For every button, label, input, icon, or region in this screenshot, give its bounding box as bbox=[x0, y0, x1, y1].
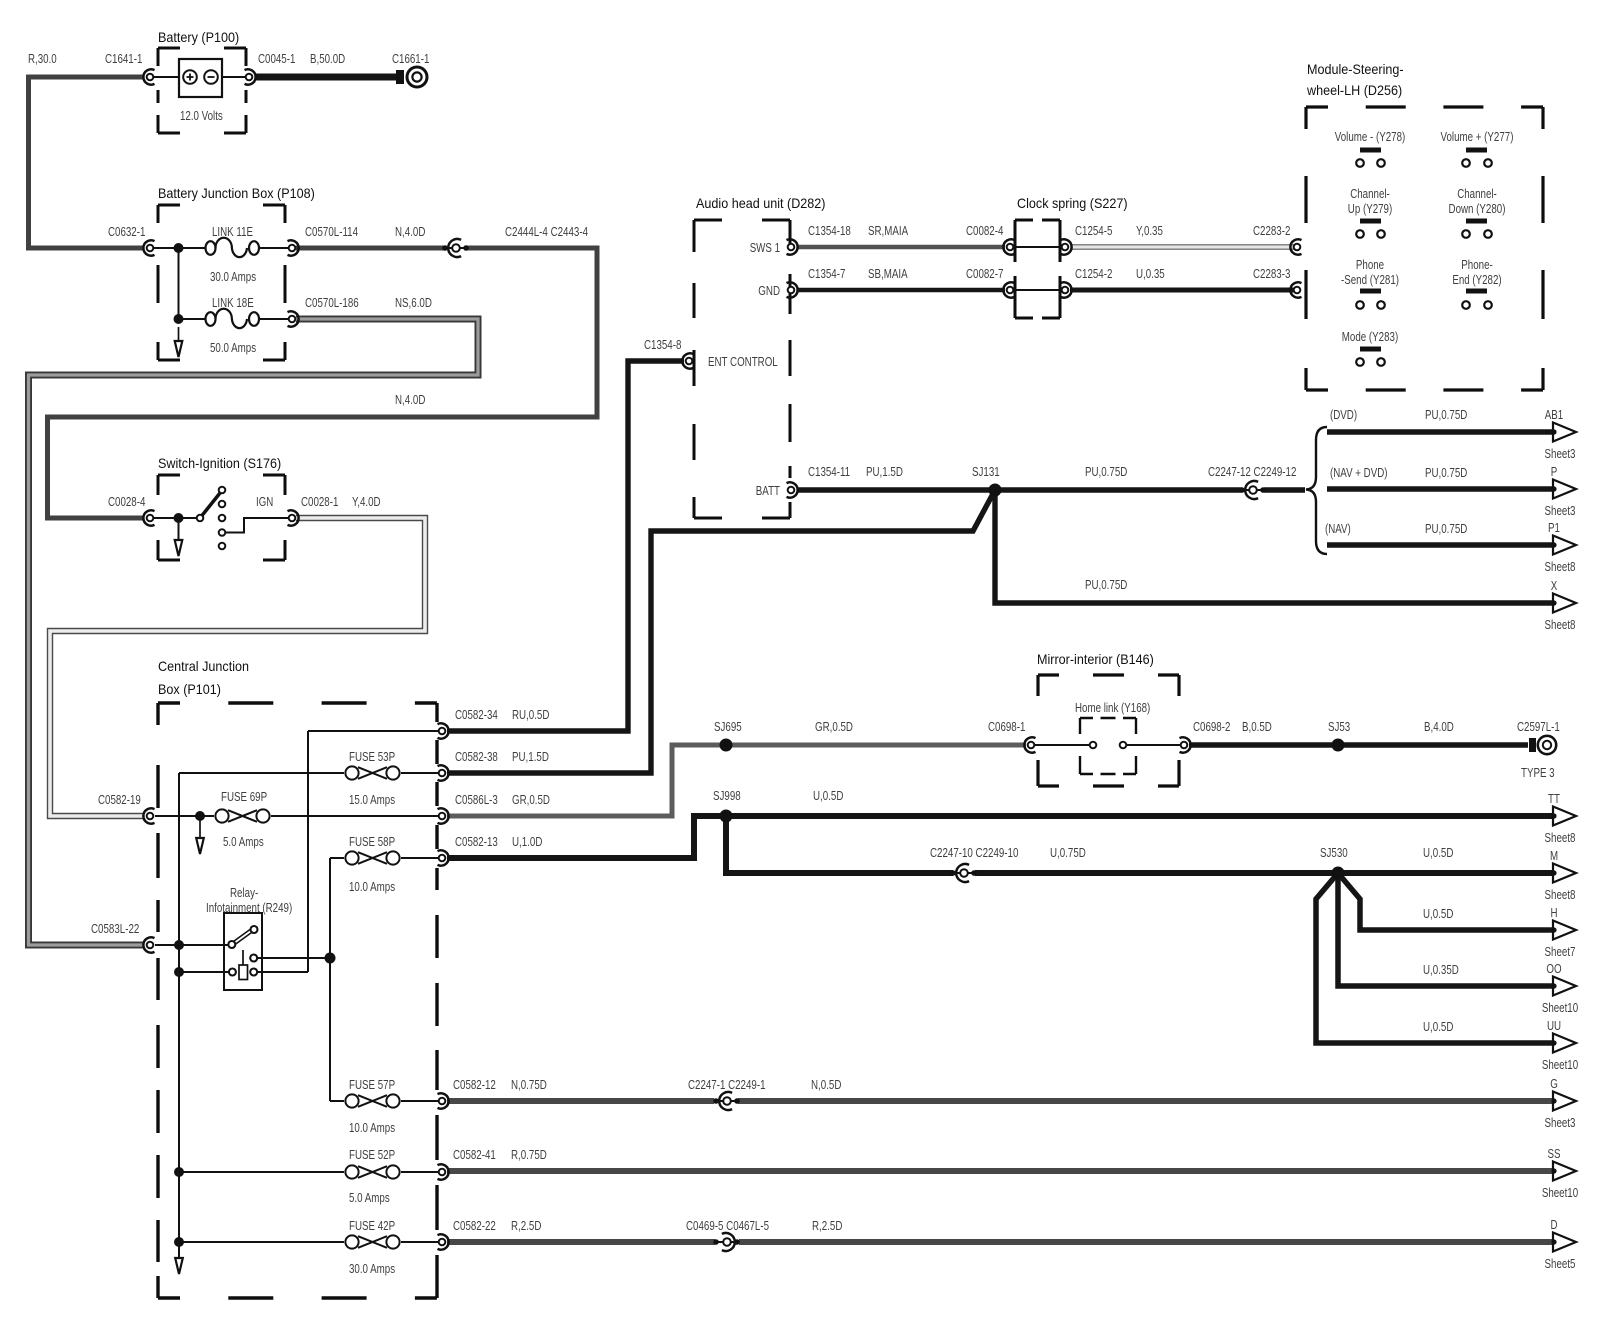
svg-text:Module-Steering-: Module-Steering- bbox=[1307, 61, 1404, 77]
svg-text:U,0.5D: U,0.5D bbox=[813, 788, 843, 803]
svg-text:Volume + (Y277): Volume + (Y277) bbox=[1441, 129, 1514, 144]
svg-text:Box (P101): Box (P101) bbox=[158, 681, 221, 697]
svg-text:IGN: IGN bbox=[256, 494, 273, 509]
svg-text:30.0 Amps: 30.0 Amps bbox=[349, 1261, 395, 1276]
svg-text:15.0 Amps: 15.0 Amps bbox=[349, 792, 395, 807]
svg-text:C0632-1: C0632-1 bbox=[108, 224, 145, 239]
svg-text:C1354-18: C1354-18 bbox=[808, 223, 851, 238]
svg-text:Volume - (Y278): Volume - (Y278) bbox=[1335, 129, 1406, 144]
svg-text:C1354-8: C1354-8 bbox=[644, 337, 681, 352]
svg-text:Relay-: Relay- bbox=[230, 885, 258, 900]
svg-text:Switch-Ignition (S176): Switch-Ignition (S176) bbox=[158, 455, 281, 471]
svg-text:N,0.5D: N,0.5D bbox=[811, 1077, 841, 1092]
svg-text:Channel-: Channel- bbox=[1350, 186, 1390, 201]
svg-text:C0028-4: C0028-4 bbox=[108, 494, 145, 509]
svg-text:C0698-2: C0698-2 bbox=[1193, 719, 1230, 734]
svg-text:C0582-34: C0582-34 bbox=[455, 707, 498, 722]
svg-text:RU,0.5D: RU,0.5D bbox=[512, 707, 549, 722]
svg-text:Y,0.35: Y,0.35 bbox=[1136, 223, 1163, 238]
svg-text:U,0.5D: U,0.5D bbox=[1423, 1019, 1453, 1034]
svg-text:R,2.5D: R,2.5D bbox=[511, 1218, 541, 1233]
svg-text:Infotainment (R249): Infotainment (R249) bbox=[206, 900, 292, 915]
svg-text:C0582-38: C0582-38 bbox=[455, 749, 498, 764]
svg-text:TYPE 3: TYPE 3 bbox=[1521, 765, 1555, 780]
svg-text:C2444L-4 C2443-4: C2444L-4 C2443-4 bbox=[505, 224, 588, 239]
svg-text:B,4.0D: B,4.0D bbox=[1424, 719, 1454, 734]
svg-text:Sheet8: Sheet8 bbox=[1545, 830, 1576, 845]
svg-text:10.0 Amps: 10.0 Amps bbox=[349, 879, 395, 894]
svg-text:PU,1.5D: PU,1.5D bbox=[512, 749, 549, 764]
svg-text:R,2.5D: R,2.5D bbox=[812, 1218, 842, 1233]
svg-text:Sheet8: Sheet8 bbox=[1545, 559, 1576, 574]
svg-text:Channel-: Channel- bbox=[1457, 186, 1497, 201]
svg-text:12.0 Volts: 12.0 Volts bbox=[180, 108, 223, 123]
svg-text:FUSE 69P: FUSE 69P bbox=[221, 789, 267, 804]
svg-text:10.0 Amps: 10.0 Amps bbox=[349, 1120, 395, 1135]
svg-text:PU,0.75D: PU,0.75D bbox=[1085, 577, 1127, 592]
svg-text:R,0.75D: R,0.75D bbox=[511, 1147, 547, 1162]
svg-text:Sheet5: Sheet5 bbox=[1545, 1256, 1576, 1271]
svg-text:C0586L-3: C0586L-3 bbox=[455, 792, 498, 807]
svg-text:H: H bbox=[1551, 905, 1558, 920]
svg-text:G: G bbox=[1550, 1076, 1558, 1091]
svg-text:Home link (Y168): Home link (Y168) bbox=[1075, 700, 1150, 715]
svg-text:C0582-13: C0582-13 bbox=[455, 834, 498, 849]
svg-text:PU,0.75D: PU,0.75D bbox=[1425, 407, 1467, 422]
svg-text:C0698-1: C0698-1 bbox=[988, 719, 1025, 734]
svg-text:D: D bbox=[1551, 1217, 1558, 1232]
svg-text:Sheet10: Sheet10 bbox=[1542, 1057, 1578, 1072]
svg-text:C0045-1: C0045-1 bbox=[258, 51, 295, 66]
svg-text:C2597L-1: C2597L-1 bbox=[1517, 719, 1560, 734]
svg-text:Phone-: Phone- bbox=[1461, 257, 1493, 272]
svg-text:N,4.0D: N,4.0D bbox=[395, 224, 425, 239]
svg-text:ENT CONTROL: ENT CONTROL bbox=[708, 354, 778, 369]
svg-text:C2247-1 C2249-1: C2247-1 C2249-1 bbox=[688, 1077, 766, 1092]
svg-text:C2283-2: C2283-2 bbox=[1253, 223, 1290, 238]
svg-text:PU,0.75D: PU,0.75D bbox=[1085, 464, 1127, 479]
svg-text:SB,MAIA: SB,MAIA bbox=[868, 266, 908, 281]
svg-text:LINK 18E: LINK 18E bbox=[212, 295, 254, 310]
svg-text:C1661-1: C1661-1 bbox=[392, 51, 429, 66]
svg-text:Sheet7: Sheet7 bbox=[1545, 944, 1576, 959]
svg-text:(NAV + DVD): (NAV + DVD) bbox=[1330, 465, 1388, 480]
svg-text:Sheet10: Sheet10 bbox=[1542, 1000, 1578, 1015]
svg-text:UU: UU bbox=[1547, 1018, 1561, 1033]
svg-text:SR,MAIA: SR,MAIA bbox=[868, 223, 908, 238]
svg-text:Sheet3: Sheet3 bbox=[1545, 446, 1576, 461]
svg-text:Sheet8: Sheet8 bbox=[1545, 617, 1576, 632]
svg-text:SJ131: SJ131 bbox=[972, 464, 1000, 479]
svg-text:End (Y282): End (Y282) bbox=[1452, 272, 1501, 287]
svg-text:Battery Junction Box (P108): Battery Junction Box (P108) bbox=[158, 185, 315, 201]
svg-text:OO: OO bbox=[1546, 961, 1561, 976]
svg-text:Sheet3: Sheet3 bbox=[1545, 1115, 1576, 1130]
svg-text:Y,4.0D: Y,4.0D bbox=[352, 494, 381, 509]
svg-text:P1: P1 bbox=[1548, 520, 1560, 535]
svg-text:(NAV): (NAV) bbox=[1325, 521, 1351, 536]
svg-text:U,0.75D: U,0.75D bbox=[1050, 845, 1086, 860]
svg-text:P: P bbox=[1551, 464, 1558, 479]
svg-text:SS: SS bbox=[1548, 1146, 1561, 1161]
svg-text:U,0.35D: U,0.35D bbox=[1423, 962, 1459, 977]
svg-text:AB1: AB1 bbox=[1545, 407, 1563, 422]
svg-text:Audio head unit (D282): Audio head unit (D282) bbox=[696, 195, 826, 211]
svg-text:SJ998: SJ998 bbox=[713, 788, 741, 803]
svg-text:C1354-7: C1354-7 bbox=[808, 266, 845, 281]
svg-text:Sheet10: Sheet10 bbox=[1542, 1185, 1578, 1200]
svg-text:C0582-41: C0582-41 bbox=[453, 1147, 496, 1162]
svg-text:wheel-LH (D256): wheel-LH (D256) bbox=[1306, 82, 1402, 98]
svg-text:SJ53: SJ53 bbox=[1328, 719, 1350, 734]
svg-text:C2283-3: C2283-3 bbox=[1253, 266, 1290, 281]
svg-text:Clock spring (S227): Clock spring (S227) bbox=[1017, 195, 1128, 211]
svg-text:5.0 Amps: 5.0 Amps bbox=[223, 834, 264, 849]
svg-text:SJ530: SJ530 bbox=[1320, 845, 1348, 860]
svg-text:30.0 Amps: 30.0 Amps bbox=[210, 269, 256, 284]
svg-text:PU,1.5D: PU,1.5D bbox=[866, 464, 903, 479]
svg-text:GR,0.5D: GR,0.5D bbox=[512, 792, 550, 807]
svg-text:C0028-1: C0028-1 bbox=[301, 494, 338, 509]
svg-text:BATT: BATT bbox=[756, 483, 780, 498]
svg-text:TT: TT bbox=[1548, 791, 1560, 806]
svg-text:U,0.5D: U,0.5D bbox=[1423, 845, 1453, 860]
svg-text:C1641-1: C1641-1 bbox=[105, 51, 142, 66]
svg-text:SWS 1: SWS 1 bbox=[750, 240, 780, 255]
svg-text:FUSE 57P: FUSE 57P bbox=[349, 1077, 395, 1092]
svg-text:C0582-19: C0582-19 bbox=[98, 792, 141, 807]
svg-text:X: X bbox=[1551, 578, 1558, 593]
svg-text:Sheet8: Sheet8 bbox=[1545, 887, 1576, 902]
svg-text:SJ695: SJ695 bbox=[714, 719, 742, 734]
svg-text:FUSE 42P: FUSE 42P bbox=[349, 1218, 395, 1233]
svg-text:C0570L-186: C0570L-186 bbox=[305, 295, 359, 310]
svg-text:Mirror-interior (B146): Mirror-interior (B146) bbox=[1037, 651, 1154, 667]
svg-text:C0082-4: C0082-4 bbox=[966, 223, 1003, 238]
svg-text:U,1.0D: U,1.0D bbox=[512, 834, 542, 849]
svg-text:C2247-12 C2249-12: C2247-12 C2249-12 bbox=[1208, 464, 1296, 479]
svg-text:Sheet3: Sheet3 bbox=[1545, 503, 1576, 518]
svg-text:LINK 11E: LINK 11E bbox=[212, 224, 253, 239]
svg-text:U,0.5D: U,0.5D bbox=[1423, 906, 1453, 921]
svg-text:FUSE 58P: FUSE 58P bbox=[349, 834, 395, 849]
svg-text:Up (Y279): Up (Y279) bbox=[1348, 201, 1392, 216]
svg-text:R,30.0: R,30.0 bbox=[28, 51, 57, 66]
svg-text:Battery (P100): Battery (P100) bbox=[158, 29, 239, 45]
svg-text:Phone: Phone bbox=[1356, 257, 1384, 272]
svg-text:C1254-2: C1254-2 bbox=[1075, 266, 1112, 281]
svg-text:GR,0.5D: GR,0.5D bbox=[815, 719, 853, 734]
svg-text:50.0 Amps: 50.0 Amps bbox=[210, 340, 256, 355]
svg-text:B,50.0D: B,50.0D bbox=[310, 51, 345, 66]
svg-text:C0582-22: C0582-22 bbox=[453, 1218, 496, 1233]
svg-text:5.0 Amps: 5.0 Amps bbox=[349, 1190, 390, 1205]
svg-text:Mode (Y283): Mode (Y283) bbox=[1342, 329, 1398, 344]
svg-text:N,0.75D: N,0.75D bbox=[511, 1077, 547, 1092]
svg-text:C0469-5 C0467L-5: C0469-5 C0467L-5 bbox=[686, 1218, 769, 1233]
svg-text:FUSE 52P: FUSE 52P bbox=[349, 1147, 395, 1162]
svg-text:-Send (Y281): -Send (Y281) bbox=[1341, 272, 1399, 287]
svg-text:M: M bbox=[1550, 848, 1558, 863]
svg-text:C0583L-22: C0583L-22 bbox=[91, 921, 139, 936]
svg-text:C1254-5: C1254-5 bbox=[1075, 223, 1112, 238]
svg-text:C1354-11: C1354-11 bbox=[808, 464, 850, 479]
svg-text:FUSE 53P: FUSE 53P bbox=[349, 749, 395, 764]
svg-text:C0570L-114: C0570L-114 bbox=[305, 224, 358, 239]
svg-text:C2247-10 C2249-10: C2247-10 C2249-10 bbox=[930, 845, 1018, 860]
svg-text:Central Junction: Central Junction bbox=[158, 658, 249, 674]
svg-text:(DVD): (DVD) bbox=[1330, 407, 1357, 422]
svg-text:Down (Y280): Down (Y280) bbox=[1449, 201, 1506, 216]
svg-text:B,0.5D: B,0.5D bbox=[1242, 719, 1272, 734]
svg-text:NS,6.0D: NS,6.0D bbox=[395, 295, 432, 310]
svg-text:C0082-7: C0082-7 bbox=[966, 266, 1003, 281]
svg-text:U,0.35: U,0.35 bbox=[1136, 266, 1165, 281]
svg-text:PU,0.75D: PU,0.75D bbox=[1425, 521, 1467, 536]
svg-text:GND: GND bbox=[758, 283, 780, 298]
svg-text:N,4.0D: N,4.0D bbox=[395, 392, 425, 407]
svg-text:PU,0.75D: PU,0.75D bbox=[1425, 465, 1467, 480]
svg-text:C0582-12: C0582-12 bbox=[453, 1077, 496, 1092]
